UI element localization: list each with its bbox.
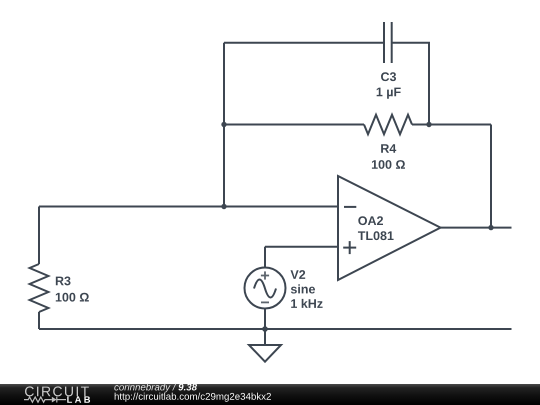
resistor R4 [364,115,412,134]
wire op-amp output [440,227,512,229]
label C3 name [381,72,396,81]
wire C3 right to corner and down [392,43,429,125]
CircuitLab logo LAB [67,396,90,402]
label OA2 value [358,231,394,240]
junction dot at V2 / bottom rail [262,326,268,332]
wire R4 row right [412,124,491,126]
label V2 freq [291,299,322,308]
wire feedback right vertical [490,125,492,228]
label R3 value [56,293,89,302]
capacitor C3 [384,22,392,63]
wire R4 row left [224,124,364,126]
resistor R3 [30,264,49,312]
op-amp non-inverting input mark [343,247,356,249]
label OA2 name [358,216,383,225]
CircuitLab logo wordmark [25,386,89,396]
label V2 type [291,284,315,293]
junction dot at output / feedback [488,225,493,230]
wire left vertical [223,43,225,207]
V2 minus polarity mark [261,301,269,303]
label R4 value [372,160,405,169]
wire inverting input [39,206,338,208]
voltage source V2 circle [245,268,286,309]
label C3 value [377,88,401,99]
V2 plus polarity mark [261,271,269,302]
wire bottom rail [39,328,512,330]
CircuitLab logo doodle (resistor + diode) [24,397,66,403]
wire R3 bottom lead [38,312,40,329]
wire V2 bottom lead [264,309,266,330]
footer url line [115,393,271,402]
wire top left horizontal to C3 [224,42,384,44]
ground [249,329,281,362]
op-amp inverting input mark [343,207,356,254]
op-amp OA2 triangle [338,176,441,280]
label V2 name [290,270,305,279]
junction dot at left vertical / inverting input [221,204,226,209]
wire non-inverting input [265,246,338,248]
footer user line [114,383,176,392]
footer score [178,384,197,391]
wire V2 top lead [264,247,266,268]
V2 sine waveform [254,280,276,298]
junction dot at left vertical / R4 row [221,122,226,127]
wire left vertical upper to R3 [38,207,40,265]
junction dot at C3 branch / R4 row [426,122,431,127]
label R3 name [56,276,71,285]
footer bar [0,384,540,405]
label R4 name [381,144,396,153]
